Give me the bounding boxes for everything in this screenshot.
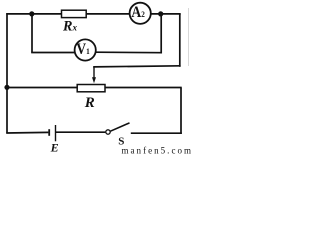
wire: vertical from top junction down to voltmeter branch bbox=[31, 14, 33, 53]
svg-text:manfen5.com: manfen5.com bbox=[122, 145, 192, 155]
node: junction dot right of ammeter bbox=[158, 11, 163, 16]
svg-text:E: E bbox=[50, 141, 59, 155]
voltmeter V1 (circle) bbox=[75, 39, 96, 60]
wire: ammeter to top-right corner bbox=[151, 13, 181, 15]
scan artifact: faint vertical line near right edge bbox=[188, 8, 190, 66]
wire: left vertical rail bbox=[6, 13, 8, 133]
resistor Rx (box) bbox=[62, 10, 87, 17]
wire: inner right vertical from junction down to voltmeter wire bbox=[160, 14, 162, 54]
battery E long plate bbox=[55, 125, 57, 141]
wire: bottom wire from right corner to switch bbox=[131, 132, 182, 134]
wire: rheostat to right rail bbox=[105, 87, 182, 89]
node: junction dot on top wire bbox=[29, 11, 34, 16]
wire: top-left horizontal from left rail to Rx bbox=[6, 13, 61, 15]
wire: voltmeter right horizontal bbox=[96, 51, 162, 54]
switch S blade bbox=[110, 123, 129, 131]
arrowhead of rheostat wiper bbox=[92, 77, 96, 83]
node: junction dot on left rail at rheostat wire bbox=[4, 85, 9, 90]
wire: battery to bottom-left corner bbox=[6, 131, 48, 134]
rheostat R (box) bbox=[77, 85, 105, 92]
wire: rheostat wiper horizontal bbox=[93, 66, 180, 67]
switch S pivot circle bbox=[106, 130, 110, 134]
wire: outer right vertical from top wire down to wiper wire bbox=[179, 14, 181, 67]
wire: left rail to rheostat bbox=[7, 87, 77, 89]
ammeter A2 (circle) bbox=[130, 3, 151, 24]
wire: voltmeter left horizontal bbox=[31, 52, 75, 54]
wire: bottom right vertical bbox=[180, 88, 182, 135]
svg-text:R: R bbox=[84, 95, 95, 111]
svg-text:Rx: Rx bbox=[62, 19, 77, 35]
wire: Rx to ammeter bbox=[86, 13, 130, 15]
battery E short plate bbox=[48, 129, 50, 136]
wire: switch to battery bbox=[56, 131, 105, 133]
wire: wiper vertical drop bbox=[93, 67, 95, 79]
